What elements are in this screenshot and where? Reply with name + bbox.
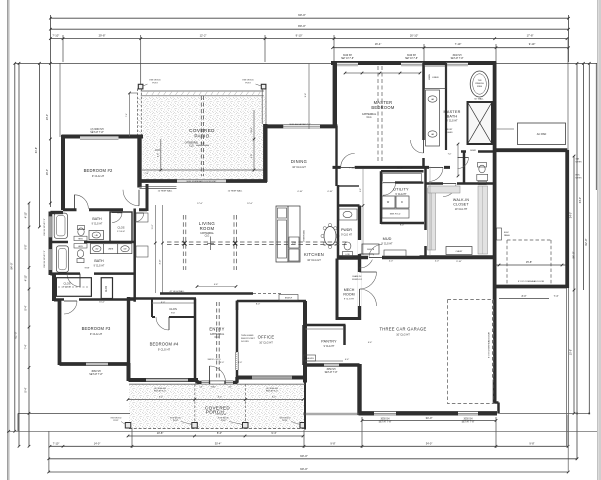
- svg-text:62'-0": 62'-0": [14, 332, 18, 339]
- svg-text:9'-4": 9'-4": [271, 431, 276, 435]
- svg-text:20'-10": 20'-10": [410, 34, 418, 38]
- svg-text:9'-8": 9'-8": [529, 442, 534, 446]
- closet jog wall: [50, 273, 54, 276]
- svg-text:SET AT 7'-8": SET AT 7'-8": [89, 373, 103, 376]
- bath2 south wall: [50, 272, 134, 275]
- svg-text:D: D: [401, 201, 403, 204]
- hall-bath door swing: [429, 167, 443, 181]
- porch dims: [128, 435, 303, 437]
- porch bay dashed divider 1: [194, 384, 196, 429]
- svg-text:7'-10": 7'-10": [53, 442, 60, 446]
- hers cab a: [74, 236, 87, 240]
- svg-text:15'-8": 15'-8": [526, 261, 532, 264]
- powder toilet: [344, 242, 351, 250]
- porch top edge thin line: [129, 383, 198, 385]
- right dimension verticals: [568, 61, 570, 63]
- svg-text:SET AT 7'-8": SET AT 7'-8": [325, 371, 338, 374]
- hall east wall upper: [146, 184, 149, 211]
- bedroom3-4 south jog wall: [127, 363, 131, 381]
- bedroom4 closet south wall: [152, 316, 196, 318]
- hall nook door swing: [123, 190, 139, 206]
- pantry east upper wall: [343, 325, 346, 345]
- svg-text:8'-0": 8'-0": [159, 397, 163, 399]
- bath west exterior wall: [49, 212, 53, 276]
- svg-text:10' CLG HT: 10' CLG HT: [307, 258, 321, 262]
- patio east beam double line: [261, 89, 263, 125]
- master bath linen wall: [445, 63, 447, 150]
- office north wall: [237, 300, 306, 303]
- living center dim mark: [210, 237, 212, 251]
- svg-text:10' CLG HT: 10' CLG HT: [292, 165, 306, 169]
- high wall jog line b: [140, 187, 177, 189]
- svg-text:PWDR: PWDR: [341, 228, 352, 232]
- entry east / office west wall: [236, 301, 239, 384]
- top dimension line master segs: [333, 47, 569, 49]
- office south exterior wall: [236, 376, 306, 380]
- svg-text:CLOS: CLOS: [106, 285, 108, 292]
- svg-text:12'-0": 12'-0": [247, 203, 253, 205]
- garage entry door swing: [369, 245, 382, 258]
- bedroom2 north exterior wall: [62, 135, 144, 139]
- utility cabinet row: [383, 174, 422, 182]
- svg-text:62'-0": 62'-0": [584, 239, 588, 246]
- east wing north exterior wall: [495, 148, 568, 152]
- svg-text:10'-0": 10'-0": [117, 213, 123, 215]
- linen cabinet: [425, 66, 447, 88]
- entry cathedral dashed lines: [216, 302, 218, 378]
- svg-text:POST: POST: [152, 82, 158, 84]
- svg-text:CLG: CLG: [367, 116, 372, 119]
- svg-text:SET AT 7'-8": SET AT 7'-8": [379, 421, 392, 424]
- master cathedral dashed lines: [377, 66, 379, 163]
- hall cabinet north: [136, 213, 148, 222]
- entry south wall with front door: [197, 381, 238, 385]
- svg-text:7'-10": 7'-10": [349, 168, 355, 170]
- bedroom3 northwest jog: [54, 299, 60, 302]
- bedroom3 west exterior wall: [58, 299, 62, 365]
- svg-text:9'X2': 9'X2': [171, 313, 176, 315]
- svg-text:15'-0": 15'-0": [99, 302, 105, 304]
- svg-text:10'-0": 10'-0": [251, 127, 253, 133]
- sheet border left outer: [6, 0, 8, 480]
- svg-text:SET AT 7'-8": SET AT 7'-8": [405, 57, 418, 60]
- svg-text:BEDROOM: BEDROOM: [371, 105, 395, 110]
- svg-text:4'-0": 4'-0": [389, 261, 394, 263]
- master bath tub standing free: [470, 71, 489, 97]
- svg-text:84'-0": 84'-0": [572, 252, 576, 259]
- svg-text:MUD: MUD: [383, 237, 392, 241]
- svg-text:3050 SH: 3050 SH: [464, 419, 473, 421]
- bath2 lav 1: [93, 246, 101, 252]
- svg-text:31'-8": 31'-8": [35, 147, 38, 153]
- patio interior dim lines: [142, 169, 267, 171]
- svg-text:84'-0": 84'-0": [9, 263, 13, 270]
- svg-text:16'-0": 16'-0": [397, 168, 403, 170]
- svg-text:8'-0": 8'-0": [256, 304, 261, 306]
- powder south wall: [338, 257, 361, 260]
- closet west exterior wall: [52, 274, 56, 302]
- bath2 lav 2: [121, 246, 129, 252]
- svg-text:9' CLG HT: 9' CLG HT: [381, 243, 393, 246]
- master bedroom door swing: [341, 153, 355, 167]
- bedroom3 south exterior wall: [60, 362, 130, 366]
- svg-text:4'-6": 4'-6": [214, 284, 219, 286]
- svg-text:60" WALL: 60" WALL: [474, 98, 484, 101]
- bedroom3 north interior wall: [54, 298, 135, 301]
- svg-text:BKSHLF: BKSHLF: [285, 298, 293, 300]
- bedroom4 south exterior wall: [129, 378, 199, 382]
- svg-text:POST: POST: [221, 420, 227, 422]
- svg-text:9' CLG HT: 9' CLG HT: [158, 348, 171, 352]
- svg-text:3'-0": 3'-0": [228, 387, 232, 389]
- svg-text:34'-0": 34'-0": [579, 197, 582, 203]
- mud bench: [362, 244, 379, 254]
- svg-text:LINEN: LINEN: [108, 249, 114, 251]
- svg-text:THIN GLASS: THIN GLASS: [241, 334, 254, 337]
- svg-text:SET AT 8'-0": SET AT 8'-0": [266, 390, 278, 393]
- svg-text:4'-10": 4'-10": [327, 191, 333, 193]
- bath1 toilet: [78, 228, 84, 236]
- svg-text:10' CLG HT: 10' CLG HT: [455, 208, 468, 211]
- elec panel: [497, 228, 502, 240]
- svg-text:3'-0": 3'-0": [220, 362, 225, 364]
- svg-text:14'-0": 14'-0": [94, 442, 101, 446]
- svg-text:GLASS: GLASS: [446, 131, 454, 134]
- pantry south exterior wall: [304, 363, 360, 367]
- svg-text:FROST: FROST: [445, 129, 453, 131]
- svg-text:WALK-IN: WALK-IN: [453, 198, 469, 202]
- powder north wall: [338, 204, 360, 207]
- svg-text:9'-8": 9'-8": [24, 244, 27, 249]
- patio west beam double line: [137, 89, 139, 137]
- svg-text:8'-0": 8'-0": [158, 153, 160, 157]
- svg-text:9'-10": 9'-10": [296, 34, 303, 38]
- entry east jog: [235, 377, 238, 383]
- closet shelves hatch bands: [428, 188, 436, 250]
- svg-text:SET AT 8'-0": SET AT 8'-0": [154, 390, 166, 393]
- svg-text:PATIO: PATIO: [194, 134, 209, 139]
- svg-text:KITCHEN: KITCHEN: [304, 252, 324, 257]
- master bath vanity lavs: [426, 90, 440, 146]
- svg-text:4'-10": 4'-10": [24, 275, 27, 281]
- master bedroom east wall: [422, 63, 425, 167]
- svg-text:3040 SH: 3040 SH: [343, 55, 352, 57]
- svg-text:9' CLG HT: 9' CLG HT: [395, 193, 407, 196]
- svg-text:COVERED: COVERED: [189, 128, 215, 133]
- svg-text:19'-0": 19'-0": [46, 114, 49, 120]
- east wing overhead door dashed tracks: [506, 240, 508, 285]
- left horizontal reference line at top of plan: [15, 62, 334, 64]
- svg-text:AC PAD: AC PAD: [537, 132, 547, 136]
- svg-text:8' X 8' OVERHEAD DOOR: 8' X 8' OVERHEAD DOOR: [518, 280, 544, 283]
- svg-text:9' CLG HT: 9' CLG HT: [341, 235, 352, 237]
- svg-text:10' CLG HT: 10' CLG HT: [259, 341, 273, 345]
- front door swing: [210, 366, 226, 382]
- svg-text:ROOM: ROOM: [343, 293, 354, 297]
- kitchen counter inner: [278, 220, 287, 258]
- office east exterior wall: [303, 301, 307, 377]
- bottom overall dim 2: [49, 471, 569, 473]
- svg-text:HERS: HERS: [78, 246, 82, 248]
- svg-text:PANEL: PANEL: [504, 234, 510, 237]
- garage width dim: [362, 420, 496, 422]
- svg-text:LINEN: LINEN: [429, 73, 431, 79]
- svg-text:9' CLG HT: 9' CLG HT: [94, 266, 105, 268]
- bedroom2 south interior wall: [63, 208, 147, 211]
- bath1 tub: [54, 213, 67, 238]
- svg-text:11'-0": 11'-0": [152, 224, 154, 229]
- svg-text:34'-0": 34'-0": [426, 416, 433, 420]
- svg-text:7'-4": 7'-4": [144, 173, 148, 175]
- svg-text:3040 SH: 3040 SH: [453, 55, 462, 57]
- svg-text:7'-4": 7'-4": [24, 344, 27, 349]
- east wing east exterior wall: [565, 150, 569, 288]
- built-ins by office: [279, 295, 298, 301]
- svg-text:8'-4": 8'-4": [24, 387, 27, 392]
- svg-text:DINING: DINING: [291, 159, 307, 164]
- top dimension line 90-0: [50, 17, 568, 19]
- svg-text:CATHEDRAL: CATHEDRAL: [200, 232, 214, 235]
- svg-text:5040 PB: 5040 PB: [367, 249, 375, 251]
- pantry shelf line 2: [306, 360, 344, 362]
- powder hall door swing: [360, 254, 374, 268]
- svg-text:SET AT 7'-8": SET AT 7'-8": [90, 131, 104, 134]
- patio south wall / big door unit: [140, 179, 267, 183]
- svg-text:9' CLG HT: 9' CLG HT: [324, 346, 335, 348]
- svg-text:3050 SH: 3050 SH: [381, 419, 390, 421]
- patio east wall: [263, 124, 267, 182]
- svg-text:4'-10": 4'-10": [159, 259, 161, 264]
- svg-text:80'-0": 80'-0": [298, 24, 306, 28]
- svg-text:3050 SH: 3050 SH: [327, 369, 336, 371]
- svg-text:3040 SH: 3040 SH: [407, 55, 416, 57]
- living room cathedral dashed lines: [167, 241, 348, 243]
- hall east interior wall: [133, 209, 136, 302]
- dining east wall: [335, 126, 337, 186]
- porch bay dashed divider 2: [245, 384, 247, 429]
- garage south exterior wall: [359, 411, 498, 415]
- garage overhead door on east wall dashed: [492, 300, 494, 380]
- sheet border left inner: [8, 0, 10, 480]
- mudroom/garage north wall: [360, 256, 495, 259]
- mud/mech west spine wall: [358, 206, 361, 321]
- svg-text:9'-10": 9'-10": [456, 261, 462, 263]
- bath2 toilet: [77, 250, 83, 258]
- svg-text:CHEST: CHEST: [455, 251, 463, 253]
- garage SE jog b: [497, 403, 500, 414]
- bath1 closet door swing: [112, 213, 122, 223]
- svg-text:DOORS: DOORS: [241, 341, 249, 343]
- svg-text:8'X8' WOOD: 8'X8' WOOD: [242, 80, 254, 82]
- garage third bay dashed outline: [448, 300, 494, 404]
- svg-text:BATH: BATH: [94, 259, 104, 263]
- svg-text:4'-0": 4'-0": [435, 261, 440, 263]
- svg-text:ROOM: ROOM: [200, 226, 215, 231]
- svg-text:9' CLG HT: 9' CLG HT: [90, 332, 103, 336]
- garage SE jog a: [495, 401, 499, 404]
- hers cab b: [74, 244, 87, 248]
- svg-text:9' CLG HT: 9' CLG HT: [92, 174, 105, 178]
- svg-text:3068 DR + SDLTS: 3068 DR + SDLTS: [207, 359, 220, 361]
- high wall jog line a: [140, 186, 177, 188]
- bath2 tub: [56, 246, 68, 272]
- closet shelf line: [152, 302, 196, 304]
- left horizontal reference line porch level: [18, 412, 130, 414]
- svg-text:SINK FOLD: SINK FOLD: [390, 214, 401, 216]
- powder-hall west wall: [337, 185, 340, 259]
- porch interior dim line: [128, 399, 303, 401]
- top dimension line 80-0: [50, 28, 568, 30]
- wc toilet: [479, 165, 485, 173]
- svg-text:CLOS: CLOS: [169, 307, 177, 311]
- svg-text:3668 POCKET: 3668 POCKET: [241, 338, 255, 340]
- bedroom3 door swing: [64, 301, 77, 314]
- dim end dots: [588, 413, 590, 415]
- pantry north wall: [304, 324, 346, 327]
- svg-text:(2) 3040 SH: (2) 3040 SH: [154, 388, 166, 390]
- right horizontal reference from wall to border: [496, 62, 597, 64]
- svg-text:17'-8": 17'-8": [527, 34, 534, 38]
- svg-text:12'-2": 12'-2": [200, 34, 207, 38]
- svg-text:9'-10": 9'-10": [529, 42, 536, 46]
- utility counter: [382, 195, 409, 197]
- svg-text:34'-0": 34'-0": [570, 212, 573, 218]
- svg-text:9' CLG HT: 9' CLG HT: [216, 414, 227, 416]
- svg-text:90'-0": 90'-0": [300, 467, 308, 471]
- closet north / wc south wall: [426, 182, 495, 185]
- svg-text:7'-0": 7'-0": [448, 154, 452, 156]
- office SE corner: [303, 376, 307, 383]
- AC pad: [518, 123, 566, 145]
- bedroom2 door swing: [74, 195, 88, 209]
- svg-text:10'-8": 10'-8": [157, 431, 164, 435]
- sheet border right inner: [597, 0, 599, 480]
- utility west wall: [380, 171, 383, 224]
- svg-text:OFFICE: OFFICE: [258, 335, 275, 340]
- bath1 lav: [92, 232, 100, 238]
- svg-text:3040 SH SET AT 7'-8": 3040 SH SET AT 7'-8": [289, 123, 311, 126]
- svg-text:POST: POST: [113, 420, 119, 422]
- patio cathedral dashed lines: [200, 96, 202, 176]
- bath2 vanity run: [90, 244, 132, 254]
- living west dim lines: [154, 205, 156, 293]
- svg-text:9' CLG HT: 9' CLG HT: [117, 231, 125, 233]
- utility south wall: [381, 222, 424, 225]
- svg-text:8'X8' WOOD: 8'X8' WOOD: [149, 80, 161, 82]
- svg-text:FREE: FREE: [477, 86, 483, 88]
- utility washer dryer: [382, 196, 395, 208]
- svg-text:LOW: LOW: [345, 254, 349, 256]
- master suite west exterior wall: [333, 62, 337, 127]
- utility door swing: [383, 183, 396, 196]
- svg-text:7'-10": 7'-10": [455, 42, 462, 46]
- pocket door hatch: [235, 352, 238, 370]
- svg-text:ELEC: ELEC: [504, 232, 510, 234]
- bottom overall dim 1: [49, 458, 577, 460]
- closet chest: [446, 247, 472, 255]
- svg-text:METER: METER: [576, 161, 583, 163]
- covered patio slab stipple: [143, 97, 267, 180]
- svg-text:9080 STANDARD DOOR UNIT: 9080 STANDARD DOOR UNIT: [186, 180, 217, 183]
- svg-text:CLOS: CLOS: [63, 282, 70, 286]
- svg-text:8'-0": 8'-0": [218, 397, 222, 399]
- kitchen DW: [289, 237, 299, 248]
- svg-text:29'-8": 29'-8": [99, 34, 106, 38]
- svg-text:10' HIGH WALL: 10' HIGH WALL: [158, 189, 173, 192]
- porch wood post center-right: [243, 423, 249, 429]
- svg-text:8'-0": 8'-0": [522, 295, 527, 298]
- entry west wall: [194, 299, 197, 382]
- porch slab south dashed edge: [129, 428, 305, 430]
- mech double door swing a: [360, 272, 377, 289]
- svg-text:MECH: MECH: [344, 288, 355, 292]
- svg-text:90'-0": 90'-0": [298, 13, 306, 17]
- top dimension line segments: [50, 38, 567, 40]
- svg-text:9' CLG HT: 9' CLG HT: [63, 287, 71, 289]
- svg-text:METER: METER: [576, 177, 583, 179]
- wing east slab double line extension: [566, 288, 568, 446]
- beam cross marks: [183, 241, 187, 246]
- top dim extension to wing corner: [567, 39, 569, 151]
- svg-text:SET AT 7'-8": SET AT 7'-8": [451, 57, 464, 60]
- powder lav: [339, 209, 357, 220]
- svg-text:7'-4": 7'-4": [126, 113, 128, 117]
- svg-text:9'-4": 9'-4": [305, 93, 307, 98]
- nook slab edge lines: [303, 412, 359, 414]
- closet south wall: [420, 255, 497, 258]
- bedroom2 east wall at patio: [137, 135, 141, 188]
- svg-text:SET AT 7'-8": SET AT 7'-8": [341, 57, 354, 60]
- svg-text:8'-4": 8'-4": [24, 305, 27, 310]
- bedroom4 door swing: [156, 317, 169, 330]
- svg-text:BATH: BATH: [92, 217, 102, 221]
- bottom dim segments: [50, 445, 568, 447]
- pantry shelves tag box: [304, 355, 316, 361]
- office nw: [236, 301, 239, 310]
- svg-text:SHWR: SHWR: [470, 150, 476, 152]
- bath1 closet walls: [110, 212, 132, 242]
- hall door swing a: [135, 213, 144, 222]
- svg-text:ENTRY: ENTRY: [209, 327, 224, 332]
- patio wood post NW: [138, 84, 143, 89]
- svg-text:10' CLG HT: 10' CLG HT: [396, 333, 410, 337]
- svg-text:9' CLG HT: 9' CLG HT: [446, 120, 458, 123]
- svg-text:16'-0": 16'-0": [46, 169, 49, 175]
- bedroom4 north wall: [129, 297, 197, 300]
- bedroom2 west exterior wall: [61, 135, 65, 210]
- hall cabinet south: [136, 246, 148, 257]
- wc vanity: [477, 174, 488, 180]
- svg-text:BEDROOM #3: BEDROOM #3: [82, 326, 111, 331]
- living room pony wall 42in: [160, 292, 253, 295]
- svg-text:CATHEDRAL: CATHEDRAL: [185, 142, 199, 145]
- bath1 vanity: [89, 231, 104, 240]
- porch wood post E: [300, 423, 306, 429]
- svg-text:HERS: HERS: [78, 239, 82, 241]
- svg-text:CLOS: CLOS: [117, 226, 124, 230]
- svg-text:10' HIGH WALL: 10' HIGH WALL: [228, 189, 243, 192]
- svg-text:8'-0": 8'-0": [272, 397, 276, 399]
- svg-text:8' X 8' OVERHEAD DOOR: 8' X 8' OVERHEAD DOOR: [488, 332, 491, 358]
- bedroom3-4 dividing wall: [127, 297, 130, 364]
- svg-text:4'-4": 4'-4": [368, 342, 373, 344]
- closet west wall: [424, 167, 427, 258]
- garage west exterior wall: [357, 364, 361, 415]
- bath2 door swing: [67, 274, 80, 287]
- svg-text:POST: POST: [245, 82, 251, 84]
- svg-text:7'-10": 7'-10": [52, 34, 59, 38]
- bath bump north wall: [50, 211, 63, 214]
